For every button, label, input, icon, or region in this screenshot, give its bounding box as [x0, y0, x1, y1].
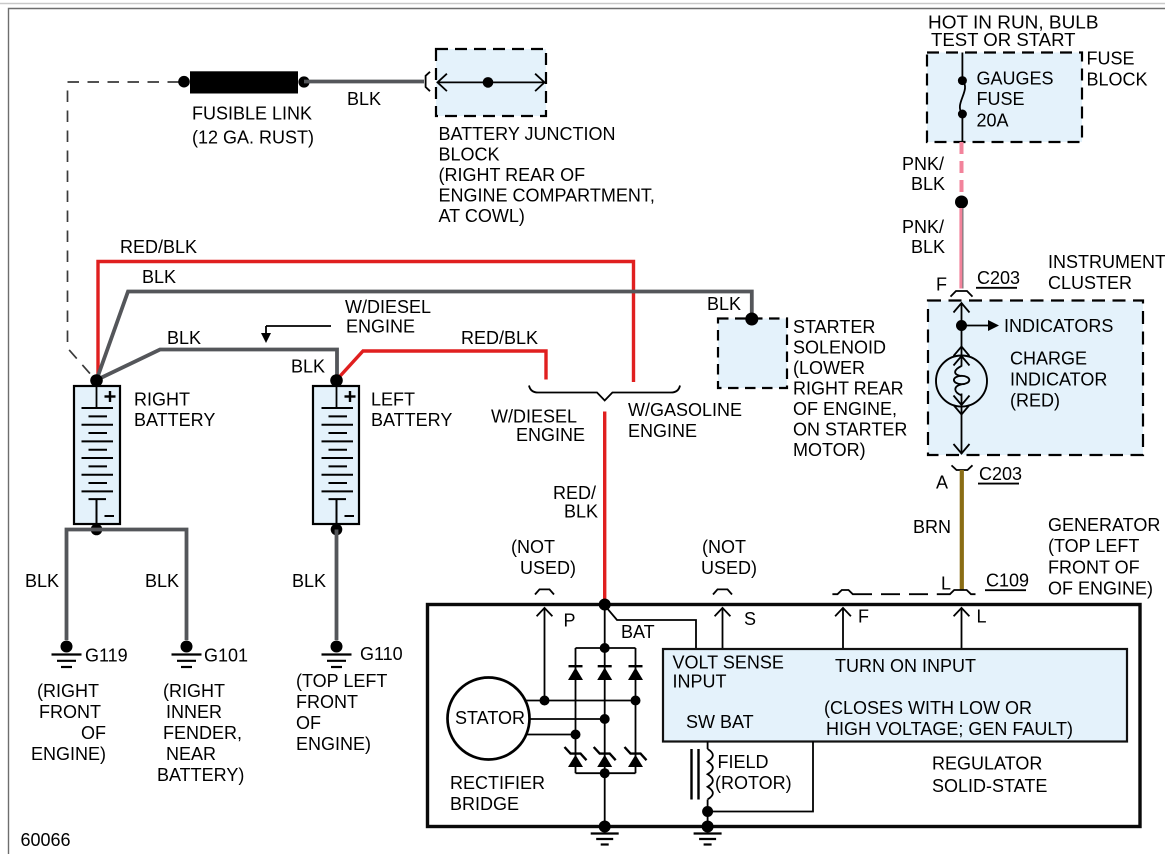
label (NOT USED) above S	[701, 537, 757, 578]
rectifier column left wire	[575, 648, 577, 773]
svg-text:L: L	[941, 574, 951, 594]
stator phase wire 2	[530, 714, 610, 724]
svg-text:FRONT OF: FRONT OF	[1048, 558, 1140, 578]
svg-text:BATTERY JUNCTION: BATTERY JUNCTION	[439, 124, 616, 144]
svg-text:INPUT: INPUT	[673, 672, 727, 692]
svg-text:RIGHT: RIGHT	[134, 390, 190, 410]
field return loop to regulator	[702, 742, 813, 818]
starter solenoid junction dot	[745, 313, 758, 326]
svg-text:60066: 60066	[21, 830, 71, 850]
stator phase wire 1	[526, 696, 641, 706]
charge indicator lamp (circle with filament)	[936, 347, 987, 455]
svg-text:STATOR: STATOR	[455, 708, 525, 728]
svg-text:RIGHT REAR: RIGHT REAR	[793, 379, 904, 399]
ground G119 location label	[31, 681, 106, 764]
connector bump at instrument cluster top	[951, 291, 973, 297]
svg-text:PNK/: PNK/	[902, 217, 944, 237]
svg-text:ENGINE: ENGINE	[628, 421, 697, 441]
svg-text:(NOT: (NOT	[511, 537, 555, 557]
svg-text:W/DIESEL: W/DIESEL	[345, 297, 431, 317]
label W/DIESEL ENGINE (feed option)	[491, 407, 585, 446]
svg-text:BLK: BLK	[167, 328, 201, 348]
svg-text:BLK: BLK	[292, 571, 326, 591]
label VOLT SENSE INPUT	[673, 653, 784, 692]
label (NOT USED) above P	[511, 537, 576, 578]
svg-text:(TOP LEFT: (TOP LEFT	[296, 671, 387, 691]
diode D3 (right top)	[628, 666, 643, 680]
svg-text:RED/: RED/	[553, 483, 596, 503]
svg-text:BLOCK: BLOCK	[439, 145, 500, 165]
svg-text:(RIGHT: (RIGHT	[163, 681, 225, 701]
svg-text:C109: C109	[986, 571, 1029, 591]
svg-text:ENGINE: ENGINE	[346, 317, 415, 337]
wire BLK: right battery to starter solenoid	[97, 267, 752, 380]
ground G101	[172, 641, 249, 668]
svg-text:S: S	[744, 609, 756, 629]
fusible link F1	[178, 71, 314, 147]
charge indicator lamp circuit inside cluster	[954, 303, 970, 356]
svg-text:FIELD: FIELD	[718, 752, 769, 772]
connector C109 bumps and dashed link on generator top	[832, 590, 975, 594]
svg-text:BRIDGE: BRIDGE	[450, 794, 519, 814]
label GENERATOR location	[1048, 515, 1160, 599]
starter solenoid label	[793, 317, 907, 460]
svg-text:BLK: BLK	[145, 571, 179, 591]
rectifier bridge bottom bus	[576, 768, 636, 778]
zener diode D5 (middle bottom)	[594, 747, 616, 767]
label FUSE BLOCK	[1087, 49, 1148, 90]
svg-text:NEAR: NEAR	[166, 744, 216, 764]
svg-text:PNK/: PNK/	[902, 154, 944, 174]
svg-text:USED): USED)	[701, 558, 757, 578]
wire: dashed alternate-path link from fusible link to right battery positive	[68, 82, 180, 377]
svg-text:SW BAT: SW BAT	[686, 712, 754, 732]
svg-text:TURN ON INPUT: TURN ON INPUT	[835, 656, 976, 676]
right battery	[74, 374, 215, 524]
left battery	[313, 374, 452, 524]
label FIELD (ROTOR)	[715, 752, 792, 793]
svg-text:BLK: BLK	[291, 357, 325, 377]
svg-text:C203: C203	[979, 464, 1022, 484]
page top separator line	[0, 3, 1165, 5]
svg-text:BLK: BLK	[911, 174, 945, 194]
wire: BAT to volt sense input	[606, 607, 696, 648]
svg-text:F: F	[858, 607, 869, 627]
field rotor coil	[692, 742, 713, 812]
regulator input box (blue)	[663, 649, 1127, 742]
terminal L arrow	[954, 607, 987, 650]
svg-text:BATTERY: BATTERY	[371, 410, 452, 430]
ground G119	[52, 641, 128, 668]
zener diode D4 (left bottom)	[565, 747, 587, 767]
svg-text:(TOP LEFT: (TOP LEFT	[1048, 536, 1139, 556]
svg-text:G110: G110	[360, 644, 403, 664]
diode D1 (left top)	[568, 666, 583, 680]
svg-text:RED/BLK: RED/BLK	[461, 328, 538, 348]
zener diode D6 (right bottom)	[625, 747, 647, 767]
svg-text:BATTERY: BATTERY	[134, 410, 215, 430]
instrument cluster (dashed box)	[928, 301, 1143, 456]
label CHARGE INDICATOR (RED)	[1010, 349, 1107, 411]
svg-text:G101: G101	[204, 646, 248, 666]
svg-text:RED/BLK: RED/BLK	[120, 237, 197, 257]
svg-text:ENGINE): ENGINE)	[31, 744, 106, 764]
svg-text:FUSE: FUSE	[977, 89, 1025, 109]
wire BLK: left battery negative to ground G110	[292, 524, 342, 640]
starter solenoid (dashed box)	[718, 319, 787, 389]
svg-text:USED): USED)	[520, 558, 576, 578]
svg-text:AT COWL): AT COWL)	[439, 206, 525, 226]
stator phase wire 3	[526, 730, 581, 740]
svg-text:SOLENOID: SOLENOID	[793, 338, 886, 358]
svg-text:F: F	[936, 275, 947, 295]
svg-text:ENGINE COMPARTMENT,: ENGINE COMPARTMENT,	[439, 186, 655, 206]
label HOT IN RUN, BULB TEST OR START	[928, 13, 1099, 51]
wire PNK/BLK (fusible-link style dashed) fuse block to splice	[902, 142, 962, 197]
splice dot	[955, 196, 968, 209]
ground G110 location label	[296, 671, 387, 754]
svg-text:FUSIBLE LINK: FUSIBLE LINK	[192, 104, 312, 124]
svg-text:INSTRUMENT: INSTRUMENT	[1048, 252, 1165, 272]
svg-text:ENGINE: ENGINE	[516, 425, 585, 445]
ground G110	[322, 641, 403, 668]
wire RED/BLK: right battery to engine feeds (top red run)	[97, 237, 634, 382]
svg-text:SOLID-STATE: SOLID-STATE	[932, 776, 1047, 796]
svg-text:GAUGES: GAUGES	[977, 68, 1054, 88]
wire BLK: fusible link to battery junction block	[304, 82, 424, 110]
INDICATORS branch arrow	[962, 316, 1114, 336]
terminal S arrow	[715, 608, 756, 649]
pin F and connector C203 labels	[936, 268, 1020, 295]
field ground	[694, 812, 722, 845]
svg-text:TEST OR START: TEST OR START	[931, 30, 1076, 50]
label W/GASOLINE ENGINE (feed option)	[628, 400, 742, 441]
svg-text:(RED): (RED)	[1010, 391, 1060, 411]
rectifier ground	[591, 821, 619, 845]
svg-text:W/GASOLINE: W/GASOLINE	[628, 400, 742, 420]
svg-text:BLK: BLK	[564, 502, 598, 522]
connector bump at P	[535, 589, 554, 594]
svg-text:(CLOSES WITH LOW OR: (CLOSES WITH LOW OR	[824, 698, 1032, 718]
svg-text:HIGH VOLTAGE; GEN FAULT): HIGH VOLTAGE; GEN FAULT)	[826, 719, 1073, 739]
wire BLK: right battery negative to grounds G119/G101	[25, 524, 187, 640]
svg-text:BLK: BLK	[25, 571, 59, 591]
rectifier column right wire	[635, 648, 637, 773]
battery junction block (dashed box)	[436, 49, 546, 116]
generator box	[428, 605, 1141, 827]
svg-text:OF ENGINE): OF ENGINE)	[1048, 579, 1153, 599]
svg-text:BATTERY): BATTERY)	[157, 765, 244, 785]
svg-text:FUSE: FUSE	[1087, 49, 1135, 69]
wire RED/BLK: brace to generator BAT terminal	[553, 412, 605, 604]
svg-text:ENGINE): ENGINE)	[296, 734, 371, 754]
svg-text:RECTIFIER: RECTIFIER	[450, 773, 545, 793]
svg-text:(RIGHT REAR OF: (RIGHT REAR OF	[439, 165, 586, 185]
svg-text:CHARGE: CHARGE	[1010, 349, 1087, 369]
svg-text:OF: OF	[81, 723, 106, 743]
svg-text:GENERATOR: GENERATOR	[1048, 515, 1160, 535]
terminal P arrow	[537, 608, 576, 706]
connector bump at S	[713, 589, 732, 594]
label (CLOSES WITH LOW OR HIGH VOLTAGE; GEN FAULT)	[824, 698, 1073, 739]
pin L and connector C109 labels	[941, 571, 1029, 594]
wire RED/BLK: left battery to W/DIESEL feed	[337, 328, 547, 380]
stator	[448, 678, 530, 760]
label REGULATOR SOLID-STATE	[932, 754, 1047, 797]
wire: BAT down through rectifier to ground	[604, 605, 606, 827]
svg-text:BLK: BLK	[707, 294, 741, 314]
battery junction block label	[439, 124, 655, 226]
pin A and connector C203 labels	[936, 464, 1022, 493]
svg-text:20A: 20A	[977, 111, 1009, 131]
svg-text:FRONT: FRONT	[296, 692, 358, 712]
connector cup at instrument cluster bottom	[952, 465, 973, 470]
svg-text:MOTOR): MOTOR)	[793, 440, 866, 460]
diode D2 (middle top)	[597, 666, 612, 680]
BAT terminal junction dot	[599, 599, 611, 611]
svg-text:STARTER: STARTER	[793, 317, 875, 337]
terminal F arrow	[835, 607, 869, 650]
label RECTIFIER BRIDGE	[450, 773, 545, 814]
svg-text:FRONT: FRONT	[39, 702, 101, 722]
svg-text:FENDER,: FENDER,	[163, 723, 242, 743]
svg-text:OF ENGINE,: OF ENGINE,	[793, 399, 897, 419]
svg-text:(LOWER: (LOWER	[793, 358, 865, 378]
svg-text:INDICATORS: INDICATORS	[1004, 316, 1113, 336]
svg-text:L: L	[977, 607, 987, 627]
svg-text:A: A	[936, 473, 948, 493]
wire BLK: right battery to left battery	[97, 328, 338, 380]
svg-text:LEFT: LEFT	[371, 390, 415, 410]
svg-text:W/DIESEL: W/DIESEL	[491, 407, 577, 427]
svg-text:INDICATOR: INDICATOR	[1010, 370, 1107, 390]
svg-text:(RIGHT: (RIGHT	[37, 681, 99, 701]
svg-text:CLUSTER: CLUSTER	[1048, 273, 1132, 293]
svg-text:(NOT: (NOT	[702, 537, 746, 557]
svg-text:(12 GA. RUST): (12 GA. RUST)	[192, 128, 314, 148]
svg-text:C203: C203	[977, 268, 1020, 288]
svg-text:INNER: INNER	[166, 702, 222, 722]
wire BRN: cluster to generator L	[913, 470, 962, 590]
engine-option underbrace joining W/DIESEL and W/GASOLINE feeds	[529, 386, 680, 401]
ground G101 location label	[157, 681, 244, 785]
svg-text:BLK: BLK	[347, 89, 381, 109]
svg-text:P: P	[564, 611, 576, 631]
connector break at battery junction block	[426, 72, 430, 91]
W/DIESEL ENGINE note with arrow	[261, 297, 431, 343]
svg-text:BRN: BRN	[913, 517, 951, 537]
fuse: GAUGES FUSE 20A	[958, 53, 1054, 143]
svg-text:REGULATOR: REGULATOR	[932, 754, 1042, 774]
svg-text:ON STARTER: ON STARTER	[793, 420, 907, 440]
svg-text:BLK: BLK	[142, 267, 176, 287]
svg-text:G119: G119	[85, 646, 128, 666]
svg-text:BLK: BLK	[911, 237, 945, 257]
svg-text:BAT: BAT	[621, 622, 655, 642]
fuse block (dashed box)	[927, 53, 1082, 143]
svg-text:VOLT SENSE: VOLT SENSE	[673, 653, 784, 673]
label INSTRUMENT CLUSTER	[1048, 252, 1165, 293]
svg-text:(ROTOR): (ROTOR)	[715, 773, 792, 793]
svg-text:BLOCK: BLOCK	[1087, 70, 1148, 90]
rectifier bridge top bus	[576, 643, 636, 653]
wire PNK/BLK: splice to instrument cluster	[902, 208, 963, 289]
svg-text:OF: OF	[296, 713, 321, 733]
